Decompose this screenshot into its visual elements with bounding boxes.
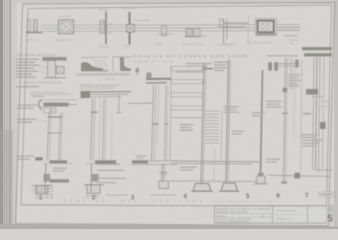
S7 bottom line xyxy=(316,169,332,171)
plan detail T2 (boxed post with X) xyxy=(56,15,74,43)
S1 wall verticals xyxy=(47,113,49,161)
S4 wall verticals xyxy=(201,63,204,183)
title block xyxy=(215,206,328,224)
plan detail T4 (small jamb) xyxy=(156,26,173,47)
ground line xyxy=(170,180,258,183)
S6 wall verticals xyxy=(284,58,286,183)
bottom scan edge xyxy=(0,224,338,229)
S7 extra light verticals xyxy=(294,60,295,140)
S5 pedestal xyxy=(219,183,240,191)
cornice detail D2 (cove) xyxy=(76,57,130,75)
S3 floor xyxy=(132,160,148,163)
plan detail T5 (double jamb) xyxy=(183,29,206,47)
S3 wall verticals xyxy=(152,85,154,161)
plan detail T3a (post with siding) xyxy=(98,8,112,49)
S2 footing xyxy=(87,185,100,194)
plan detail T7 (nested boxed post) xyxy=(247,14,300,45)
wall section S3 xyxy=(97,66,178,201)
S3 tick xyxy=(152,123,159,125)
top scan edge xyxy=(12,0,338,3)
S6 mid text xyxy=(252,101,282,163)
S4 top text xyxy=(186,63,212,67)
left scan edge strip xyxy=(0,0,3,229)
right scan edge xyxy=(334,0,338,229)
wall section S6 xyxy=(252,55,330,199)
floor line xyxy=(171,160,259,163)
S2 floor xyxy=(95,160,116,163)
ground hatch scatter near footing 1 xyxy=(30,185,40,194)
S5 wall verticals xyxy=(226,60,229,182)
S6 wall tick xyxy=(283,88,287,92)
S2 tick xyxy=(91,111,98,113)
S1 footing xyxy=(33,164,52,194)
S5 right text block xyxy=(224,106,244,135)
S2 right face pair xyxy=(103,98,105,161)
S4 right text block xyxy=(214,62,228,72)
S4 pedestal xyxy=(191,184,213,192)
wall section S7 (rightmost) xyxy=(282,57,335,200)
S3 pier post xyxy=(161,164,164,182)
wall section S2 xyxy=(80,85,131,201)
S6 lower line xyxy=(268,175,330,176)
S2 fascia vertical xyxy=(118,95,120,112)
S6 left heavy bar xyxy=(261,70,263,175)
S7 verticals xyxy=(313,57,315,170)
cornice detail D3 (frame profile) xyxy=(113,56,132,71)
S7 label box xyxy=(319,102,329,107)
level line to left xyxy=(128,102,153,104)
S1 caption above (underlined) xyxy=(16,86,38,87)
S6 right post xyxy=(295,60,298,68)
tiny scale notes under sections xyxy=(106,195,128,196)
S6 footing mark xyxy=(295,173,301,179)
S2 lower notes xyxy=(97,155,146,183)
plan detail T1 (post bracket) xyxy=(26,20,42,43)
S7 text block xyxy=(300,134,323,147)
S7 upper notes xyxy=(289,74,301,86)
S1 footing soil grid xyxy=(34,186,53,199)
S6 second pair xyxy=(290,58,293,90)
S3 footing block xyxy=(159,181,169,189)
S6 top annotation xyxy=(267,55,298,56)
lath rungs between walls xyxy=(206,111,220,143)
S7 dark block xyxy=(306,89,318,95)
boxed label right xyxy=(319,192,335,197)
S7 dark blob xyxy=(320,122,326,129)
left notes text block xyxy=(16,59,39,78)
caption under floor xyxy=(180,167,197,171)
S6 wall foot tick xyxy=(281,182,287,184)
center dashed stud line xyxy=(213,150,216,180)
top row plan wall lines xyxy=(40,25,300,32)
S4 left text block xyxy=(180,124,193,131)
S2 wall verticals xyxy=(91,98,93,161)
big middle section S4/S5 xyxy=(170,60,259,200)
S4 siding courses xyxy=(170,67,203,161)
wall section S1 xyxy=(16,86,77,201)
S5 stud inner line xyxy=(221,111,222,160)
plan detail T6 (corner L) xyxy=(218,19,248,47)
S1 ticks xyxy=(48,116,62,118)
S4 eave bars xyxy=(176,68,213,70)
S7 lower ticks xyxy=(282,113,288,115)
S6 top posts xyxy=(268,62,272,71)
S3 right face pair xyxy=(165,85,167,161)
S6 left bar footing xyxy=(257,176,266,184)
S6 eave lines xyxy=(278,63,300,65)
S1 floor xyxy=(35,157,43,160)
S1 eave xyxy=(44,99,77,101)
plan detail T3b (tall mullion) xyxy=(124,6,150,49)
right margin mottle + sheet number 5 xyxy=(327,204,335,225)
S2 inner face line xyxy=(99,98,101,160)
cornice detail D1 xyxy=(43,57,67,78)
S3 eave xyxy=(146,78,171,80)
inner bottom border line xyxy=(21,205,326,207)
S2 eave xyxy=(81,91,91,98)
S2 footing soil marks xyxy=(86,194,100,200)
S1 side notes xyxy=(17,105,37,160)
top-right eave bars T8 xyxy=(290,38,332,55)
